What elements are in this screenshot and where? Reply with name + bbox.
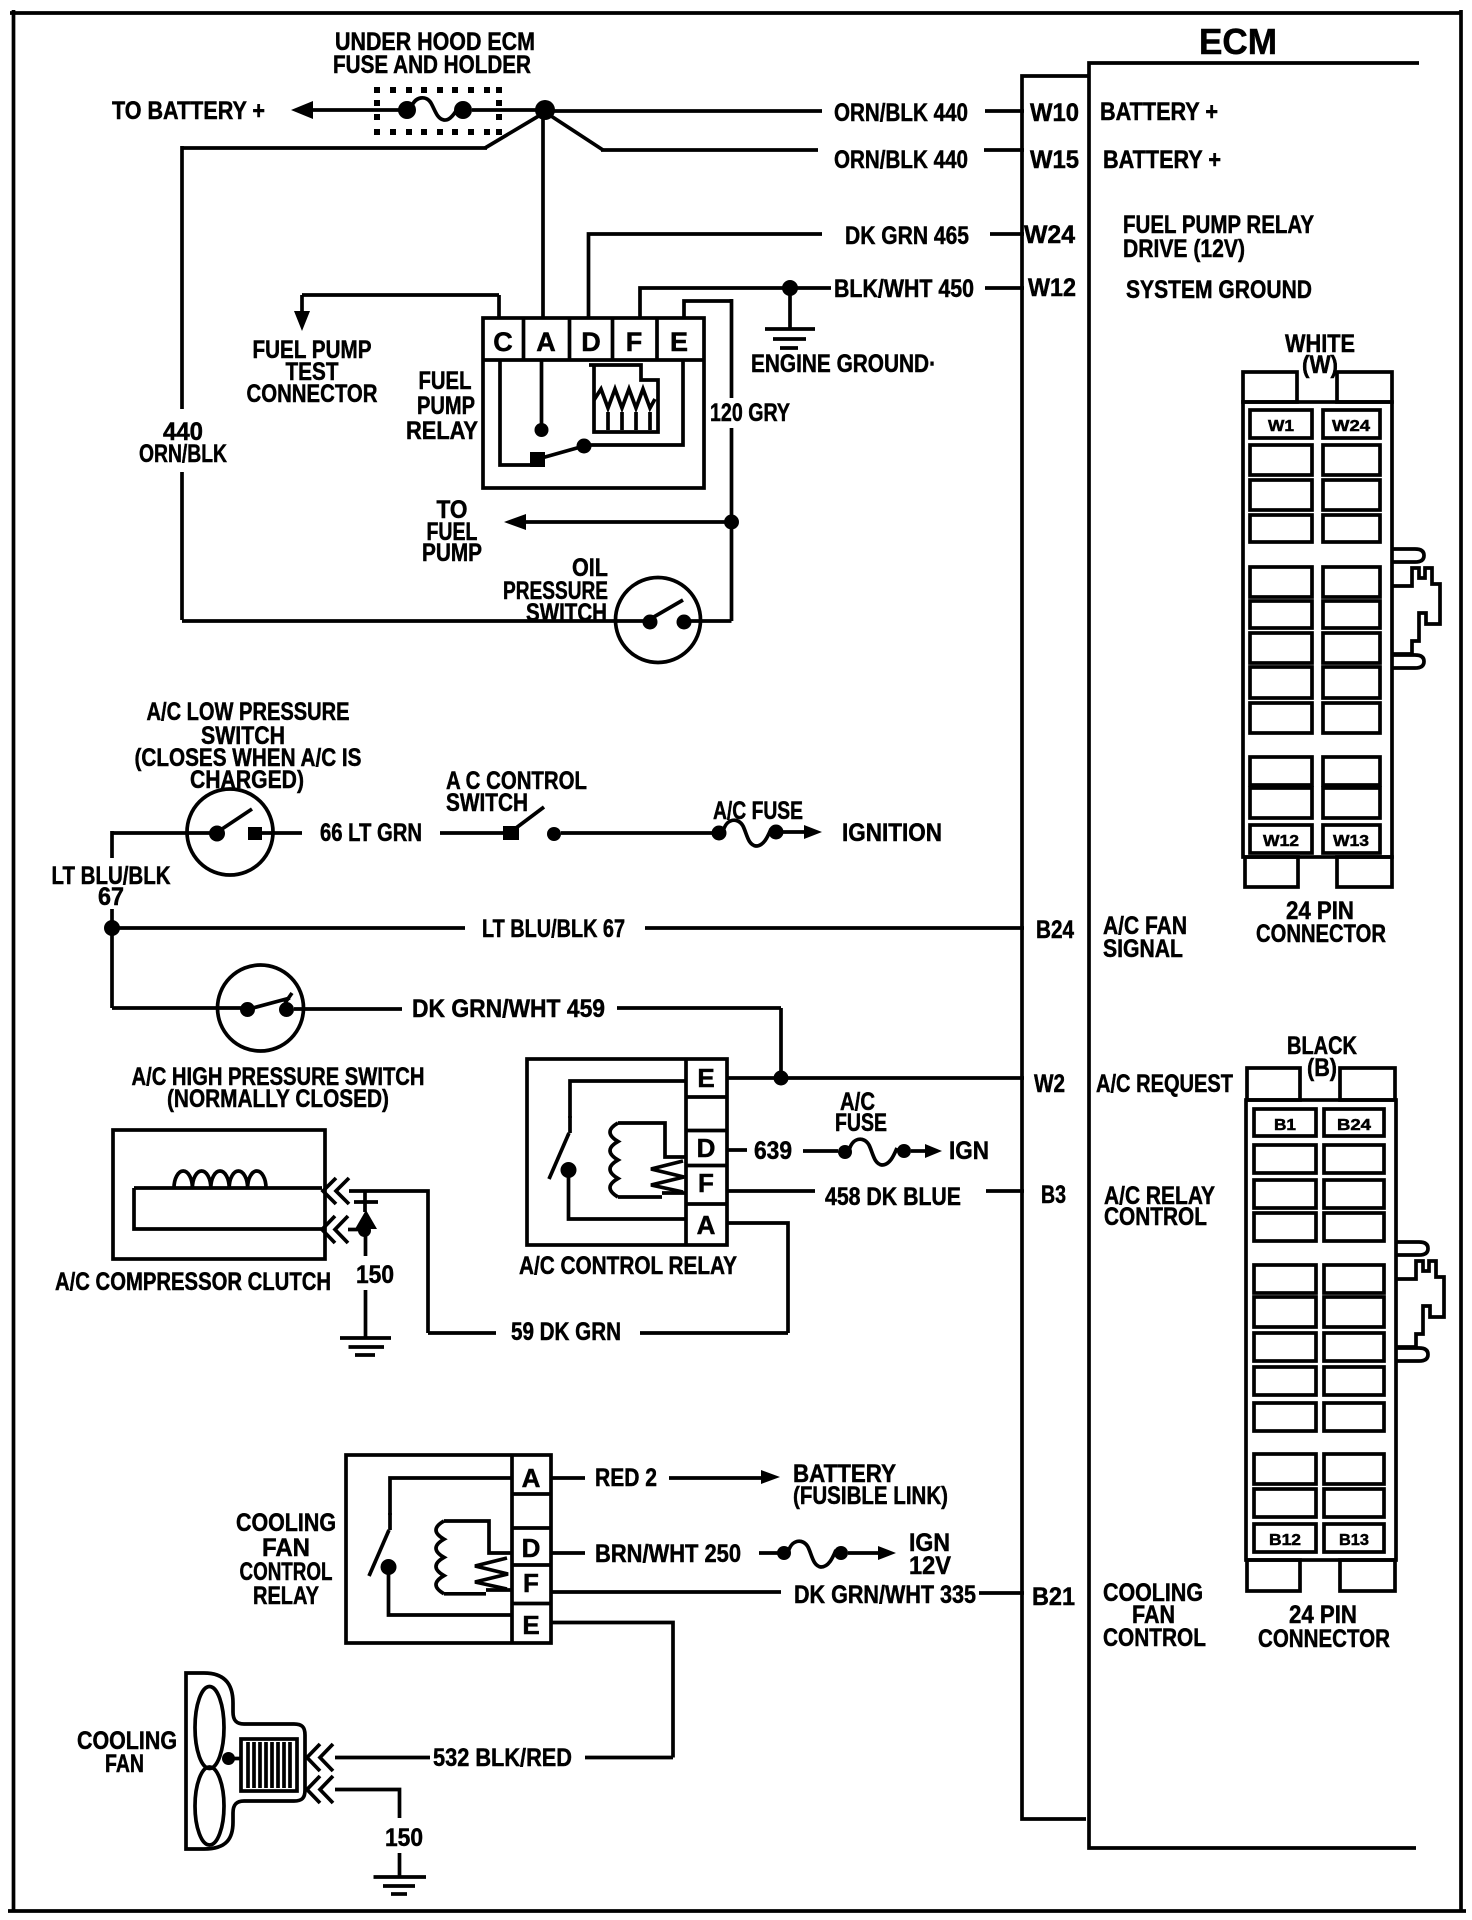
svg-text:A/C CONTROL RELAY: A/C CONTROL RELAY — [519, 1252, 737, 1280]
svg-text:458 DK BLUE: 458 DK BLUE — [825, 1183, 961, 1211]
svg-text:B3: B3 — [1041, 1181, 1066, 1209]
wire 639 from D pin — [727, 1148, 747, 1152]
page border top — [10, 11, 1461, 15]
A/C relay pin column — [684, 1059, 688, 1245]
wire TO FUEL PUMP — [523, 520, 732, 524]
arrowhead to battery — [291, 101, 313, 119]
fuel pump test connector arrow wire — [302, 293, 499, 297]
A/C low pressure switch body — [187, 789, 273, 875]
svg-text:150: 150 — [385, 1824, 423, 1852]
A/C relay coil — [610, 1123, 618, 1197]
svg-text:(B): (B) — [1307, 1054, 1337, 1082]
G_FAN — [77, 1673, 673, 1894]
svg-text:B21: B21 — [1032, 1583, 1075, 1611]
wire BRN/WHT 250 from D pin — [551, 1551, 585, 1555]
wire into low pressure switch — [112, 831, 211, 835]
svg-text:DK GRN/WHT 459: DK GRN/WHT 459 — [412, 995, 605, 1023]
fan relay coil — [436, 1521, 444, 1594]
white connector body — [1243, 402, 1392, 857]
fan connector chevrons (top) — [307, 1744, 333, 1771]
G_CONNECTORS — [1243, 330, 1444, 1653]
relay coil enclosure — [589, 365, 658, 432]
white connector bottom tabs — [1245, 857, 1298, 887]
oil pressure switch contacts — [643, 615, 658, 630]
fan motor (hatched box) — [241, 1739, 297, 1791]
fan relay internal: lower contact dot — [381, 1559, 397, 1575]
A/C relay internal: top contact — [568, 1116, 572, 1133]
black connector pin B1 — [1254, 1109, 1316, 1136]
fan relay internal: lever — [369, 1530, 389, 1576]
svg-text:BRN/WHT 250: BRN/WHT 250 — [595, 1540, 741, 1568]
svg-text:A: A — [697, 1210, 716, 1240]
wire diagonal to 440 ORN/BLK feed — [485, 114, 542, 148]
white connector pin W24 — [1323, 410, 1380, 438]
wire fuse to IGN arrow — [911, 1149, 926, 1153]
diode branch stem — [363, 1191, 367, 1212]
wire 440 ORN/BLK horizontal — [182, 146, 487, 150]
G_RELAY1 — [182, 295, 790, 663]
wire from E pin down to fan — [551, 1623, 673, 1758]
svg-text:A/C FUSE: A/C FUSE — [713, 797, 803, 825]
ECM pin strip — [1022, 76, 1089, 1819]
wire 59 DK GRN — [640, 1331, 788, 1335]
relay internal: pin A leg with ball — [540, 360, 544, 426]
svg-text:FUSE: FUSE — [835, 1109, 887, 1137]
junction to fuel pump — [724, 515, 739, 530]
svg-text:BATTERY +: BATTERY + — [1100, 98, 1218, 126]
ground symbol (fan) — [374, 1875, 427, 1879]
relay internal: common to pin E — [584, 360, 683, 445]
black connector bottom tabs — [1247, 1560, 1300, 1591]
A/C low pressure switch lever — [219, 809, 252, 831]
wire junction to A pin vertical — [541, 112, 545, 318]
diode junction dot — [358, 1224, 371, 1237]
wire 532 BLK/RED — [335, 1756, 430, 1760]
clutch coil baseline — [134, 1186, 322, 1190]
svg-text:B1: B1 — [1274, 1117, 1296, 1134]
A/C fuse (ignition feed) — [712, 826, 727, 841]
svg-text:ORN/BLK: ORN/BLK — [139, 440, 227, 468]
G_ACROW — [52, 698, 1025, 1113]
relay internal: contact pad — [530, 452, 545, 467]
clutch connector chevrons (bottom) — [322, 1216, 348, 1243]
svg-text:DRIVE (12V): DRIVE (12V) — [1123, 235, 1245, 263]
ground symbol (clutch) — [340, 1336, 391, 1340]
cooling fan control relay U3 outer box — [346, 1455, 551, 1643]
black connector pin boxes rows 2-11 — [1254, 1145, 1384, 1517]
svg-text:CONNECTOR: CONNECTOR — [1258, 1625, 1390, 1653]
wire clutch top terminal — [349, 1191, 428, 1333]
A/C relay internal: lower contact dot — [561, 1162, 577, 1178]
arrowhead down (fuel pump test connector) — [294, 311, 310, 331]
white connector top tabs — [1243, 372, 1297, 402]
wire DK GRN 465 to W24 — [589, 234, 823, 318]
svg-text:PUMP: PUMP — [422, 539, 482, 567]
G_TOPSECTION — [112, 28, 1024, 620]
A/C high pressure switch lever — [249, 998, 290, 1009]
svg-text:COOLING: COOLING — [236, 1509, 336, 1537]
page border bottom — [8, 1909, 1466, 1913]
svg-text:W24: W24 — [1024, 221, 1075, 249]
svg-text:(NORMALLY CLOSED): (NORMALLY CLOSED) — [167, 1085, 389, 1113]
fan relay pin column — [510, 1455, 514, 1643]
svg-text:RED 2: RED 2 — [595, 1464, 657, 1492]
clutch connector chevrons (top) — [323, 1178, 349, 1204]
wire to high pressure switch — [112, 1006, 241, 1010]
svg-text:IGN: IGN — [949, 1137, 989, 1165]
svg-text:150: 150 — [356, 1261, 394, 1289]
svg-text:SIGNAL: SIGNAL — [1103, 935, 1183, 963]
wire fuse to IGN 12V arrow — [848, 1551, 879, 1555]
wire fuse to ignition arrow — [783, 830, 806, 834]
diode cathode bar — [354, 1200, 378, 1204]
wire fan ground branch — [335, 1790, 400, 1819]
A/C control relay U2 outer box — [527, 1059, 727, 1245]
svg-text:B13: B13 — [1339, 1532, 1369, 1549]
arrowhead to battery (fusible link) — [761, 1470, 780, 1484]
relay coil zigzag — [594, 389, 655, 408]
svg-text:B12: B12 — [1269, 1532, 1301, 1549]
wire LT BLU/BLK vertical — [110, 909, 114, 1008]
cooling fan M1 housing — [186, 1673, 305, 1849]
A/C relay internal: E to switch — [570, 1081, 686, 1118]
fuse holder dotted box — [374, 87, 502, 135]
black connector key tab profile — [1396, 1242, 1428, 1255]
wire diode to ground — [364, 1228, 368, 1256]
svg-text:BLK/WHT 450: BLK/WHT 450 — [834, 275, 974, 303]
svg-text:ECM: ECM — [1199, 21, 1277, 62]
svg-text:W24: W24 — [1332, 418, 1370, 435]
svg-text:W13: W13 — [1333, 833, 1369, 850]
svg-text:SYSTEM GROUND: SYSTEM GROUND — [1126, 276, 1312, 304]
wire E pin to W2 — [727, 1076, 1024, 1080]
svg-text:B24: B24 — [1337, 1117, 1371, 1134]
svg-text:F: F — [698, 1168, 714, 1198]
svg-text:C: C — [493, 327, 513, 357]
svg-text:120 GRY: 120 GRY — [710, 399, 790, 427]
white connector pin W1 — [1250, 410, 1312, 438]
fan relay internal: A to switch — [390, 1478, 512, 1515]
A/C compressor clutch box — [113, 1130, 325, 1259]
wire 458 DK BLUE from F pin — [727, 1189, 815, 1193]
fuse (IGN 12V feed) — [777, 1546, 791, 1560]
wire RED 2 from A pin — [551, 1476, 585, 1480]
svg-text:12V: 12V — [909, 1552, 951, 1580]
A/C high pressure switch contacts — [240, 1002, 255, 1017]
svg-text:W10: W10 — [1030, 99, 1079, 127]
ground symbol (engine) — [765, 327, 815, 331]
svg-text:W12: W12 — [1028, 274, 1076, 302]
wire DK GRN/WHT 335 from F pin to B21 — [551, 1590, 781, 1594]
svg-text:(FUSIBLE LINK): (FUSIBLE LINK) — [793, 1482, 948, 1510]
svg-text:SWITCH: SWITCH — [446, 789, 528, 817]
A/C control switch lever — [512, 807, 544, 831]
fuel pump relay U1 outer box — [483, 318, 704, 488]
black connector pin B12 — [1254, 1524, 1316, 1552]
clutch coil return — [134, 1188, 322, 1229]
wire 459 elbow down to W2 row — [779, 1008, 783, 1078]
fan relay internal: top contact — [388, 1513, 392, 1530]
svg-text:DK GRN/WHT 335: DK GRN/WHT 335 — [794, 1581, 976, 1609]
black connector body — [1246, 1100, 1396, 1560]
white connector pin W12 — [1250, 825, 1312, 853]
fuel pump relay pin row — [483, 358, 704, 362]
black connector pin B24 — [1324, 1109, 1384, 1136]
relay internal: switch arm — [538, 446, 584, 459]
fan blade (lower) — [195, 1767, 224, 1845]
fan blade (upper) — [195, 1687, 224, 1769]
G_FANRELAY — [236, 1455, 1024, 1758]
A/C control switch right contact — [547, 827, 561, 841]
wire diagonal to W15 row — [548, 114, 603, 150]
junction on W2 wire — [774, 1071, 789, 1086]
wire 120 GRY vertical (upper) — [730, 299, 734, 398]
junction LT BLU/BLK 67 — [104, 920, 120, 936]
G_STRIP_LABELS — [1024, 98, 1314, 1652]
white connector pin W13 — [1323, 825, 1380, 853]
svg-text:A: A — [522, 1463, 541, 1493]
diode D1 (filled, pointing up) — [355, 1210, 377, 1229]
G_CLUTCH — [55, 1130, 428, 1355]
svg-text:FUEL: FUEL — [419, 367, 472, 395]
page border right / ECM right edge — [1459, 10, 1463, 1911]
svg-text:F: F — [523, 1568, 539, 1598]
arrowhead to IGN — [925, 1144, 942, 1158]
oil pressure switch body — [616, 578, 701, 663]
G_ACRELAY — [428, 1059, 1024, 1346]
svg-text:A: A — [536, 327, 556, 357]
wire LT BLU/BLK 67 elbow down — [110, 831, 114, 858]
A/C fuse (relay feed) — [838, 1145, 852, 1159]
wire 120 GRY vertical (lower) — [730, 428, 734, 621]
arrowhead to IGN 12V — [878, 1546, 896, 1560]
wire from A pin down — [727, 1223, 788, 1333]
svg-text:CONNECTOR: CONNECTOR — [1256, 920, 1386, 948]
svg-text:639: 639 — [754, 1137, 792, 1165]
svg-text:DK GRN 465: DK GRN 465 — [845, 222, 969, 250]
wire to battery arrow — [310, 108, 400, 112]
svg-text:ORN/BLK 440: ORN/BLK 440 — [834, 99, 968, 127]
wire 440 feed to oil switch — [182, 619, 646, 623]
svg-text:D: D — [581, 327, 601, 357]
pin E elbow to 120 GRY — [684, 301, 732, 318]
svg-text:E: E — [697, 1063, 714, 1093]
junction node (battery feed) — [535, 100, 555, 120]
svg-text:E: E — [522, 1610, 539, 1640]
svg-text:W1: W1 — [1268, 418, 1294, 435]
wire clutch bottom terminal to diode — [348, 1228, 364, 1232]
white connector pin boxes rows 2-11 — [1250, 445, 1380, 818]
svg-text:ORN/BLK 440: ORN/BLK 440 — [834, 146, 968, 174]
svg-text:CONTROL: CONTROL — [1103, 1624, 1206, 1652]
wire BLK/WHT 450 to W12 — [640, 288, 831, 318]
svg-text:BATTERY +: BATTERY + — [1103, 146, 1221, 174]
arrowhead to ignition — [804, 825, 822, 839]
fan connector chevrons (bottom) — [307, 1776, 333, 1803]
svg-text:67: 67 — [98, 883, 124, 911]
svg-text:PUMP: PUMP — [417, 392, 475, 420]
svg-text:FAN: FAN — [105, 1750, 144, 1778]
oil pressure switch lever — [652, 600, 683, 618]
svg-text:W2: W2 — [1034, 1070, 1065, 1098]
white connector key tab profile — [1392, 549, 1424, 562]
A/C control switch contact pad — [503, 826, 519, 840]
arrowhead to fuel pump — [504, 514, 526, 530]
svg-text:ENGINE GROUND·: ENGINE GROUND· — [751, 350, 936, 378]
wire 440 ORN/BLK left vertical — [180, 146, 184, 409]
svg-text:59 DK GRN: 59 DK GRN — [511, 1318, 621, 1346]
pin C stub — [497, 295, 501, 318]
svg-text:W12: W12 — [1263, 833, 1299, 850]
A/C relay internal: contact to pin A — [569, 1176, 687, 1219]
svg-text:E: E — [670, 327, 688, 357]
svg-text:A/C REQUEST: A/C REQUEST — [1096, 1070, 1233, 1098]
svg-text:CHARGED): CHARGED) — [190, 766, 304, 794]
svg-text:F: F — [626, 327, 643, 357]
wire ORN/BLK 440 to W10 — [472, 108, 536, 112]
svg-text:D: D — [522, 1533, 541, 1563]
svg-text:CONNECTOR: CONNECTOR — [247, 380, 378, 408]
svg-text:D: D — [697, 1133, 716, 1163]
black connector top tabs — [1247, 1068, 1300, 1100]
wire control switch to A/C fuse — [561, 831, 713, 835]
black connector pin B13 — [1324, 1524, 1384, 1552]
wire 66 LT GRN — [262, 831, 302, 835]
wire DK GRN/WHT 459 — [294, 1007, 402, 1011]
relay internal: pin C leg — [500, 360, 531, 465]
svg-text:TO BATTERY +: TO BATTERY + — [112, 97, 265, 125]
engine ground stem — [788, 292, 792, 328]
clutch coil humps — [174, 1171, 266, 1188]
svg-text:FUSE AND HOLDER: FUSE AND HOLDER — [333, 51, 531, 79]
wire LT BLU/BLK 67 to B24 — [112, 926, 465, 930]
svg-text:(W): (W) — [1302, 351, 1338, 379]
svg-text:CONTROL: CONTROL — [1104, 1203, 1207, 1231]
A/C high pressure switch body — [218, 965, 304, 1051]
svg-text:RELAY: RELAY — [253, 1582, 319, 1610]
svg-text:IGNITION: IGNITION — [842, 819, 942, 847]
fan hub — [222, 1752, 235, 1765]
junction at engine ground — [782, 280, 798, 296]
fan relay internal: contact to pin E — [389, 1573, 513, 1615]
svg-text:LT BLU/BLK 67: LT BLU/BLK 67 — [482, 915, 625, 943]
under hood ECM fuse — [398, 101, 416, 119]
svg-text:A/C COMPRESSOR CLUTCH: A/C COMPRESSOR CLUTCH — [55, 1268, 331, 1296]
wire oil switch to 120 GRY — [690, 619, 732, 623]
svg-text:W15: W15 — [1030, 146, 1079, 174]
relay coil prongs — [608, 412, 650, 430]
A/C low pressure switch contacts — [209, 826, 225, 842]
relay internal: pivot dot — [577, 439, 592, 454]
wire ORN/BLK 440 to W15 — [601, 148, 818, 152]
svg-text:B24: B24 — [1036, 916, 1074, 944]
svg-text:532 BLK/RED: 532 BLK/RED — [433, 1744, 572, 1772]
page border left — [12, 10, 16, 1911]
A/C relay internal: lever — [549, 1133, 569, 1179]
svg-text:RELAY: RELAY — [406, 417, 478, 445]
svg-text:66 LT GRN: 66 LT GRN — [320, 819, 422, 847]
ECM box — [1089, 63, 1419, 1848]
